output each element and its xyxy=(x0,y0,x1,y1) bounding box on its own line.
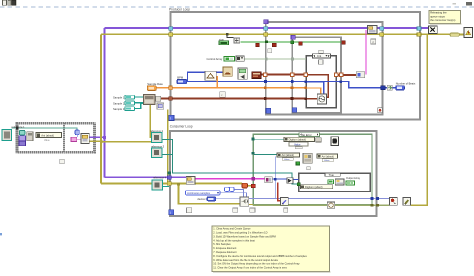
wire: brown waveform from wav read to for loop xyxy=(261,74,306,76)
svg-text:Control Array: Control Array xyxy=(207,57,223,61)
vi icon: clear error (red dot) xyxy=(390,197,398,205)
svg-text:♪: ♪ xyxy=(221,93,223,97)
svg-text:11. Clear the Output Array if: 11. Clear the Output Array if xxx index … xyxy=(213,266,287,270)
boolean constant: stop (green) xyxy=(219,41,229,45)
property box: digitum path xyxy=(284,137,314,141)
case selector header "No Error" xyxy=(299,133,320,137)
icon: green array glyph case2 xyxy=(328,180,333,184)
svg-text:Producer Loop: Producer Loop xyxy=(169,7,190,11)
svg-text:Sample 3: Sample 3 xyxy=(113,107,125,111)
svg-text:2. Load .wav Files and getting: 2. Load .wav Files and getting 3 x Wavef… xyxy=(213,231,267,235)
vi icon: sound output write xyxy=(281,197,289,205)
wire: brown lower into mix vi xyxy=(306,98,317,100)
vi icon: mix inside for loop xyxy=(317,94,326,104)
label box: enqueue C xyxy=(371,39,376,44)
tunnel: red on case edge xyxy=(251,184,255,187)
indicator: number of beats xyxy=(396,86,405,90)
icon: index array triangle xyxy=(287,178,293,184)
loop1 top-left purple glyph xyxy=(264,20,268,24)
control: control array (boolean array) xyxy=(224,56,234,61)
junction: purple branch xyxy=(103,136,106,139)
junction: stop drop on yellow xyxy=(226,33,229,36)
producer loop iteration terminal i xyxy=(169,115,174,120)
wire: error branch down inside consumer xyxy=(179,184,241,204)
toolbar icon 3 (dark block) xyxy=(12,0,16,5)
label: value 3 xyxy=(322,159,333,162)
wire: blue bpm up-branch to metronome vi xyxy=(187,72,205,81)
wire: error yellow top horizontal through producer loop xyxy=(101,33,450,35)
tunnel: yellow at producer right xyxy=(417,33,421,37)
junction: reference1 dot xyxy=(16,127,19,130)
wire: teal sample 3 to mix xyxy=(135,104,144,109)
tunnel: blue big at loop1 right xyxy=(381,86,385,90)
tunnel: olive dots at case right and loop right xyxy=(371,204,374,207)
tunnel: yellow consumer left xyxy=(167,182,171,185)
svg-text:3. Build 1D Waveform based on: 3. Build 1D Waveform based on Sample Rat… xyxy=(213,234,275,238)
wire: olive handler merge to simple error handler xyxy=(460,34,465,36)
wire: blue triangle icon to case2 xyxy=(293,179,299,181)
window fragment top-right xyxy=(466,2,472,5)
icon: wave file reader xyxy=(238,68,247,79)
icon: RIFF wav (dark red) xyxy=(252,72,261,79)
control: sample 3 (teal IO) xyxy=(125,107,135,111)
wire: teal case tunnel to digitum box xyxy=(254,138,284,140)
vi icon: mix samples (3d box) xyxy=(144,94,155,104)
svg-text:Sample 1: Sample 1 xyxy=(113,96,125,100)
svg-text:Digitum (absol): Digitum (absol) xyxy=(289,138,307,142)
icon: metronome tan xyxy=(223,67,232,76)
diagram disable structure (dashed frame) xyxy=(17,123,95,152)
junction: brown dots on lower waveform wire xyxy=(264,97,267,100)
wire: error along case bottom to handler icons xyxy=(253,204,390,206)
icon: small property gray xyxy=(316,138,321,142)
icon: waveform junction glyph xyxy=(156,96,161,101)
wire: blue consumer combo to i32 xyxy=(220,193,247,198)
tunnel: brown ring loop2 right xyxy=(339,73,342,76)
wire: error from config icon xyxy=(249,203,253,205)
wire: teal sample 1 to mix xyxy=(135,96,144,98)
wire: blue task id config to sound write xyxy=(249,197,281,199)
icon: reference 3 vi ref xyxy=(152,148,162,158)
tunnel: green at loop2 left xyxy=(291,41,294,44)
wire: teal sample 2 to mix xyxy=(135,102,144,104)
svg-text:♬: ♬ xyxy=(372,40,375,44)
tunnel: purple at producer right xyxy=(417,27,421,31)
svg-text:No Error: No Error xyxy=(302,133,312,137)
wire: error yellow into consumer dequeue xyxy=(101,183,187,185)
svg-text:Number of Beats: Number of Beats xyxy=(396,81,416,85)
note: releasing the queue (top right) xyxy=(429,11,462,25)
junction: error branch consumer xyxy=(177,183,180,186)
wire: teal reference trunk in consumer xyxy=(162,140,299,184)
wire: red sound data vertical xyxy=(278,183,281,201)
label: value 2 xyxy=(282,158,293,161)
tunnel: yellow at loop1 right xyxy=(380,33,384,37)
svg-text:queue stops: queue stops xyxy=(430,14,445,18)
vi icon: metronome timing xyxy=(205,71,216,80)
tunnel: purple at loop1 right xyxy=(380,27,384,31)
wire: error yellow from obtain queue xyxy=(89,140,101,142)
wire: blue bpm to number of beats xyxy=(187,82,381,88)
vi icon: sound output configure xyxy=(240,197,249,206)
wire: purple queue ref from obtain queue to vertical trunk xyxy=(89,136,105,138)
wire: blue dequeue index to case2 xyxy=(272,178,287,180)
wire: blue inside for loop to mix vi xyxy=(306,82,324,94)
constant: device id blue xyxy=(207,197,216,201)
label box: metro note xyxy=(220,92,226,97)
wire: purple horizontal into producer and through to release queue xyxy=(105,27,430,29)
tunnel: teal squares case left xyxy=(252,138,255,141)
loop2 top-left purple glyph xyxy=(291,35,295,39)
svg-text:reference 4: reference 4 xyxy=(153,175,167,179)
wire: brown mixed samples lower trunk xyxy=(155,98,306,100)
wire: blue i32 pair drop xyxy=(234,189,244,197)
control: BPM numeric xyxy=(177,79,187,83)
icon: clear errors small (orange red) xyxy=(242,183,247,188)
wire: teal reference 1 to disable structure xyxy=(12,128,78,130)
control: sample 1 (teal IO) xyxy=(125,95,135,99)
for loop N label box xyxy=(319,50,324,53)
loop2 iteration terminal xyxy=(292,108,297,113)
junction: blue cross dot xyxy=(274,178,276,180)
combo: continuous samples xyxy=(186,191,221,195)
junction: magenta tunnel case edge xyxy=(252,177,255,180)
wire: error branch to reference 2 icon xyxy=(101,141,152,143)
icon: reference 2 vi ref xyxy=(152,133,162,143)
tunnel: purple at loop1 left xyxy=(264,27,268,31)
vi icon: error check (pen) xyxy=(403,197,411,205)
svg-text:Ani (absol): Ani (absol) xyxy=(41,134,54,138)
tunnel: brown ring loop2 left xyxy=(290,73,293,76)
svg-text:Value: Value xyxy=(324,160,330,162)
icon: coercion dot number of beats xyxy=(387,85,392,90)
inner case selector header "True" xyxy=(325,173,340,176)
svg-text:Sample 2: Sample 2 xyxy=(113,101,125,105)
svg-text:8. Configure the device for co: 8. Configure the device for continuous s… xyxy=(213,254,307,258)
wire: orange up-branch to metronome icon xyxy=(216,76,218,88)
toolbar icon 1 (clipboard) xyxy=(3,0,7,5)
property: value box xyxy=(289,142,308,146)
constant: boolean true green xyxy=(296,162,300,165)
tunnel: brown at producer left xyxy=(169,97,173,101)
vi icon: simple error handler xyxy=(464,28,473,38)
disable structure divider xyxy=(63,123,65,153)
icon: path property node xyxy=(27,132,33,141)
control: sample rate (orange) xyxy=(147,86,156,91)
svg-text:the consumer loop(s): the consumer loop(s) xyxy=(430,18,455,22)
wire: queue name to obtain queue xyxy=(77,138,81,140)
svg-text:reference 1: reference 1 xyxy=(12,125,26,129)
svg-text:True: True xyxy=(329,173,335,177)
wire: stop terminal drop xyxy=(227,34,234,37)
wire: control array into for loop xyxy=(244,58,306,60)
disable structure sub-label box xyxy=(60,159,65,163)
tunnel: purple consumer left xyxy=(167,176,171,179)
icon: red stop squares on boolean wire xyxy=(256,43,260,46)
wire: magenta enqueue data vertical xyxy=(365,30,367,75)
wire: purple horizontal into consumer dequeue xyxy=(105,176,188,178)
wire: error yellow down right side xyxy=(411,34,428,205)
svg-text:continuous samples: continuous samples xyxy=(187,191,211,195)
property box: ani path 2 xyxy=(277,153,299,157)
tunnel: yellow at producer left xyxy=(169,33,173,37)
tunnel: orange at producer left xyxy=(169,86,173,90)
wire: error clear errors to case tunnel xyxy=(247,185,252,187)
junction: green dot on stop wire at loop1 xyxy=(265,41,268,44)
wire: teal case tunnel to ani box xyxy=(254,154,277,156)
wire: error yellow vertical trunk down xyxy=(100,141,102,184)
tunnel: brown ring for loop left xyxy=(304,73,307,76)
toolbar separator xyxy=(15,0,18,6)
loop1 iteration terminal xyxy=(266,108,271,113)
vi icon: wait ms consumer xyxy=(327,202,335,208)
indicator terminal: output array (boolean array) xyxy=(346,181,355,185)
vi icon: release queue (X) xyxy=(429,26,438,34)
label box: inside loop1 xyxy=(268,49,272,53)
svg-text:BPM: BPM xyxy=(177,76,184,80)
note: numbered algorithm description (bottom) xyxy=(212,226,331,272)
wire: error yellow vertical trunk up xyxy=(100,34,102,142)
icon: array size (dark) xyxy=(236,56,244,61)
label box under value xyxy=(295,147,302,149)
icon: variant to data xyxy=(265,177,272,183)
svg-text:10. Set ON the Output Array de: 10. Set ON the Output Array depending on… xyxy=(213,262,300,266)
wire: blue number of beats indicator feed xyxy=(385,87,396,89)
property box: digitum in case2 xyxy=(300,185,332,189)
for loop count header xyxy=(313,54,331,58)
for loop i count box xyxy=(319,60,324,64)
svg-text:Ani (absol): Ani (absol) xyxy=(322,154,335,158)
constant: i32 pair xyxy=(225,187,230,191)
svg-text:Digitum (absol): Digitum (absol) xyxy=(305,185,323,189)
label boxes along consumer bottom xyxy=(187,208,192,213)
wire: brown inside for loop down to mix vi xyxy=(306,75,328,98)
icon: replace array subset xyxy=(335,179,344,185)
producer while loop frame xyxy=(171,12,421,120)
stray blue mark at left edge xyxy=(0,233,2,235)
control: sample 2 (teal IO) xyxy=(125,101,135,105)
tunnel: brown ring for loop right xyxy=(334,73,337,76)
icon: stop unbundle glyph xyxy=(234,38,240,43)
vi icon: enqueue element xyxy=(368,26,377,34)
tunnel: teal dot consumer edge xyxy=(167,172,170,175)
inner while loop 1 frame xyxy=(266,22,383,115)
wire: error from dequeue to clear errors xyxy=(195,182,242,184)
svg-text:Cnt: Cnt xyxy=(317,54,321,58)
wire: queue type to obtain queue xyxy=(76,135,78,137)
tunnel: green on case2 left xyxy=(297,183,300,186)
svg-text:Consumer Loop: Consumer Loop xyxy=(170,125,193,129)
tunnel: blue dots at case right and loop right xyxy=(371,197,374,200)
icon: property node pair xyxy=(303,153,312,163)
svg-text:Output Array: Output Array xyxy=(346,177,361,180)
case structure (no error) green frame xyxy=(253,134,372,204)
icon: invoke node black glyph xyxy=(331,137,338,146)
for loop frame xyxy=(306,56,336,108)
icon: merge errors node xyxy=(450,33,459,36)
wire: error from queue status down past consumer edge xyxy=(167,109,169,183)
svg-text:Value: Value xyxy=(284,159,290,161)
tunnel: purple at producer left xyxy=(169,27,173,31)
tunnel: yellow at loop1 left xyxy=(264,33,268,37)
constant: queue name (pink) xyxy=(71,137,77,141)
icon: queue status box xyxy=(157,103,164,109)
toolbar icon 2 (gray tool) xyxy=(8,1,11,6)
svg-text:7. Dequeue Element: 7. Dequeue Element xyxy=(213,250,237,254)
wire: brown result out of for loop to enqueue converter xyxy=(336,74,356,76)
wire: magenta dequeue output to variant icon xyxy=(195,178,265,180)
tunnel: gray squares on control array wire xyxy=(265,58,268,61)
label box: hash xyxy=(307,167,311,170)
inner case structure (true) dark frame xyxy=(299,173,371,191)
wire: teal reference 4 into loop xyxy=(163,186,170,188)
wire: error from mixer down to reference 2 xyxy=(150,104,152,137)
junction: yellow branch to reference 2 xyxy=(100,140,103,143)
wire: blue task id sound write to loop edge xyxy=(288,197,390,199)
tunnel: brown ring loop1 left xyxy=(263,73,266,76)
vi icon: obtain queue xyxy=(81,134,89,144)
svg-text:6. Enqueue Element: 6. Enqueue Element xyxy=(213,246,236,250)
icon: open ref teal glyph xyxy=(19,130,25,135)
junction: orange diamonds on sample rate wire xyxy=(264,86,267,89)
wire: orange inside for loop to mix vi xyxy=(306,88,321,94)
wire: orange sample rate trunk xyxy=(156,87,306,89)
icon: reference 4 vi ref xyxy=(152,180,162,190)
svg-text:5. Mix Samples: 5. Mix Samples xyxy=(213,242,231,246)
svg-text:1. Clear Array and Create Queu: 1. Clear Array and Create Queue xyxy=(213,227,251,231)
svg-text:Ani (absol): Ani (absol) xyxy=(282,153,295,157)
svg-text:Releasing the: Releasing the xyxy=(430,11,447,15)
property box: ani path 3 xyxy=(317,154,337,158)
icon: to-variant converter before enqueue xyxy=(356,72,365,78)
wire: blue device id to config xyxy=(216,198,240,200)
icon: queue type blue glyph xyxy=(75,130,79,135)
vi icon: dequeue element xyxy=(186,176,195,184)
wire: purple vertical trunk up to producer loop xyxy=(104,28,106,138)
page boundary dashed line xyxy=(0,6,474,8)
svg-text:Value: Value xyxy=(294,142,301,146)
loop1 conditional terminal xyxy=(378,108,383,113)
icon: reference 1 vi ref xyxy=(2,130,12,141)
svg-text:9. Write data read from the fi: 9. Write data read from the file to the … xyxy=(213,258,278,262)
consumer while loop frame xyxy=(170,131,377,216)
inner while loop 2 frame xyxy=(292,37,341,112)
icon: vi server purple glyphs xyxy=(19,136,25,141)
consumer loop iteration terminal xyxy=(169,210,174,215)
wire: teal reference 3 feed xyxy=(162,153,173,155)
svg-text:Value: Value xyxy=(44,140,50,142)
wire: boolean stop wire xyxy=(241,41,342,43)
constant: wav file path box xyxy=(36,133,62,138)
junction: blue dots on bpm wire xyxy=(264,80,267,83)
svg-text:4. Add up all the samples in t: 4. Add up all the samples in this beat xyxy=(213,238,255,242)
wire: blue vertical from ani value down xyxy=(274,157,276,199)
wire: purple vertical down to consumer xyxy=(104,137,106,177)
